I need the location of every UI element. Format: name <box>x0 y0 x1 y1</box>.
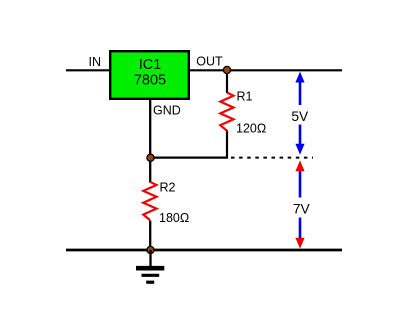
resistor R1 <box>220 90 266 136</box>
wire output rail top segment <box>189 69 342 71</box>
svg-text:R1: R1 <box>237 90 253 104</box>
dashed reference line at divider node <box>231 157 313 159</box>
svg-text:R2: R2 <box>160 181 176 195</box>
wire GND vertical from IC to bottom rail <box>149 99 151 183</box>
junction dot at ground node <box>147 246 154 253</box>
svg-text:7805: 7805 <box>134 73 166 89</box>
svg-text:IC1: IC1 <box>139 57 162 73</box>
measurement arrow 5V (blue double arrow) <box>290 72 310 155</box>
svg-text:7V: 7V <box>293 201 311 216</box>
svg-text:GND: GND <box>153 104 181 118</box>
svg-text:120Ω: 120Ω <box>236 122 266 136</box>
wire R1 top lead <box>226 70 228 93</box>
svg-text:5V: 5V <box>291 109 309 124</box>
junction dot at divider node <box>147 154 154 161</box>
regulator IC1 7805 <box>110 51 189 99</box>
junction dot at OUT node <box>223 66 230 73</box>
resistor R2 <box>143 181 189 226</box>
wire bottom rail <box>66 249 342 252</box>
measurement arrow 7V (red heads, blue shaft) <box>290 160 311 248</box>
svg-text:IN: IN <box>89 55 102 69</box>
wire from R1 bottom to GND node <box>150 131 227 158</box>
ground symbol <box>136 250 164 282</box>
wire input rail left segment <box>66 69 110 71</box>
svg-text:180Ω: 180Ω <box>159 211 189 225</box>
svg-text:OUT: OUT <box>196 55 223 69</box>
